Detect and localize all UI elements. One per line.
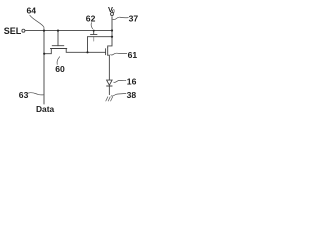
leader 38 xyxy=(111,94,126,97)
wire Q61 source xyxy=(108,55,110,80)
svg-text:Data: Data xyxy=(36,104,54,114)
transistor Q61 gate bar xyxy=(105,49,107,55)
capacitor C62 bottom plate wire xyxy=(88,36,113,38)
wire Q60 drain node xyxy=(66,49,105,53)
capacitor C62 bottom stub xyxy=(93,37,95,41)
svg-text:16: 16 xyxy=(127,77,137,87)
leader 61 xyxy=(111,53,127,55)
wire Q60 source to Data xyxy=(44,49,51,54)
svg-text:37: 37 xyxy=(129,14,139,24)
wire LED to ground xyxy=(108,86,110,95)
svg-text:60: 60 xyxy=(55,64,65,74)
svg-text:64: 64 xyxy=(27,6,37,16)
svg-text:63: 63 xyxy=(19,90,29,100)
LED D16 xyxy=(107,80,113,85)
svg-text:38: 38 xyxy=(127,90,137,100)
transistor Q60 gate stub xyxy=(57,31,59,46)
junction dots xyxy=(43,30,45,32)
leader 37 xyxy=(113,17,128,20)
wire Data line xyxy=(43,31,45,104)
svg-text:c: c xyxy=(112,8,115,14)
leader 60 xyxy=(57,57,60,65)
capacitor C62 top plate xyxy=(91,33,98,35)
capacitor C62 top lead xyxy=(93,31,95,35)
wire Vc line xyxy=(108,17,112,48)
SEL terminal circle xyxy=(22,29,25,32)
svg-text:61: 61 xyxy=(128,50,138,60)
ground 38 hatch xyxy=(106,97,113,101)
transistor Q61 channel xyxy=(107,48,109,56)
leader 62 xyxy=(91,23,92,29)
Vc terminal circle xyxy=(111,13,114,16)
transistor Q60 gate bar xyxy=(52,45,64,47)
svg-text:62: 62 xyxy=(86,14,96,24)
svg-text:SEL: SEL xyxy=(4,26,22,36)
wire SEL rail xyxy=(25,30,112,32)
wire node to capacitor xyxy=(87,37,89,53)
leader 16 xyxy=(114,80,126,82)
leader 63 xyxy=(28,93,43,95)
leader 64 xyxy=(30,15,44,30)
transistor Q60 channel xyxy=(50,48,66,50)
LED D16 cathode bar xyxy=(107,85,113,87)
